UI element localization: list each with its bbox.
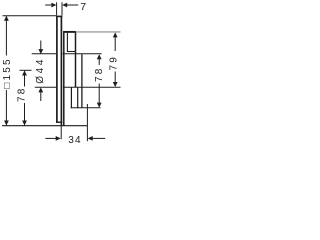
svg-text:78: 78: [16, 86, 27, 102]
wire: dim 7 tail left: [45, 4, 52, 6]
plate right edge: [60, 16, 62, 127]
body block A bottom step: [67, 51, 76, 53]
body back edge: [81, 54, 83, 108]
wire: wall line top right (gray): [76, 31, 121, 33]
dim line d44 top tail: [40, 41, 42, 51]
center axis line left: [20, 69, 32, 71]
svg-text:78: 78: [94, 66, 105, 82]
wire: bottom wall line: [2, 125, 87, 127]
arrow: dim 7 left: [51, 3, 56, 8]
dim line 155: [5, 16, 7, 55]
dim line d44 bottom tail: [40, 92, 42, 102]
arrow: dim 155 up: [4, 16, 9, 21]
wire: dim 7 tail right: [67, 4, 79, 6]
wire: dim 7 extension line right: [61, 2, 63, 15]
svg-text:79: 79: [109, 55, 120, 71]
svg-text:Ø44: Ø44: [35, 57, 46, 84]
arrow: dim d44 down at top edge: [38, 49, 43, 54]
body top cap: [63, 31, 76, 33]
dim line 79 right: [114, 37, 116, 52]
arrow: dim 34 pointing left: [88, 136, 93, 141]
arrow: dim 155 down: [4, 121, 9, 126]
arrow: dim 78 left down: [22, 121, 27, 126]
arrow: dim 34 pointing right: [56, 136, 61, 141]
wire: extension line wall x87: [86, 104, 88, 141]
body block C right edge: [77, 87, 79, 108]
svg-text:34: 34: [68, 135, 82, 146]
knob bottom extension line right: [63, 86, 121, 88]
plate left edge: [56, 16, 58, 123]
wire: dim 34 tail left: [45, 137, 56, 139]
knob bottom extension line left: [35, 86, 56, 88]
knob top extension line left: [32, 53, 56, 55]
svg-text:□155: □155: [2, 57, 13, 89]
arrow: dim 79 up: [113, 32, 118, 37]
body right edge: [75, 33, 77, 88]
arrow: dim 78 right up: [97, 54, 102, 59]
wire: dim 7 extension line left: [56, 2, 58, 15]
arrow: dim 79 down: [113, 82, 118, 87]
dim line 78 right: [98, 59, 100, 66]
svg-text:7: 7: [80, 1, 86, 13]
body block A left edge: [66, 33, 68, 52]
plate top cap: [56, 15, 62, 17]
dim line 78 left: [24, 71, 26, 87]
body block C bottom + extension line: [71, 107, 101, 109]
body block C left edge: [70, 87, 72, 108]
arrow: dim 7 right: [62, 3, 67, 8]
sleeve behind plate: [63, 31, 65, 126]
wire: plate top extension line: [3, 15, 57, 17]
wire: extension line below plate right edge: [60, 126, 62, 139]
wire: dim 34 tail right: [92, 137, 105, 139]
plate bottom cap: [56, 121, 62, 123]
arrow: dim d44 up at bottom edge: [38, 87, 43, 92]
arrow: dim 78 left up: [22, 71, 27, 76]
knob top extension line right: [63, 53, 102, 55]
arrow: dim 78 right down: [97, 103, 102, 108]
